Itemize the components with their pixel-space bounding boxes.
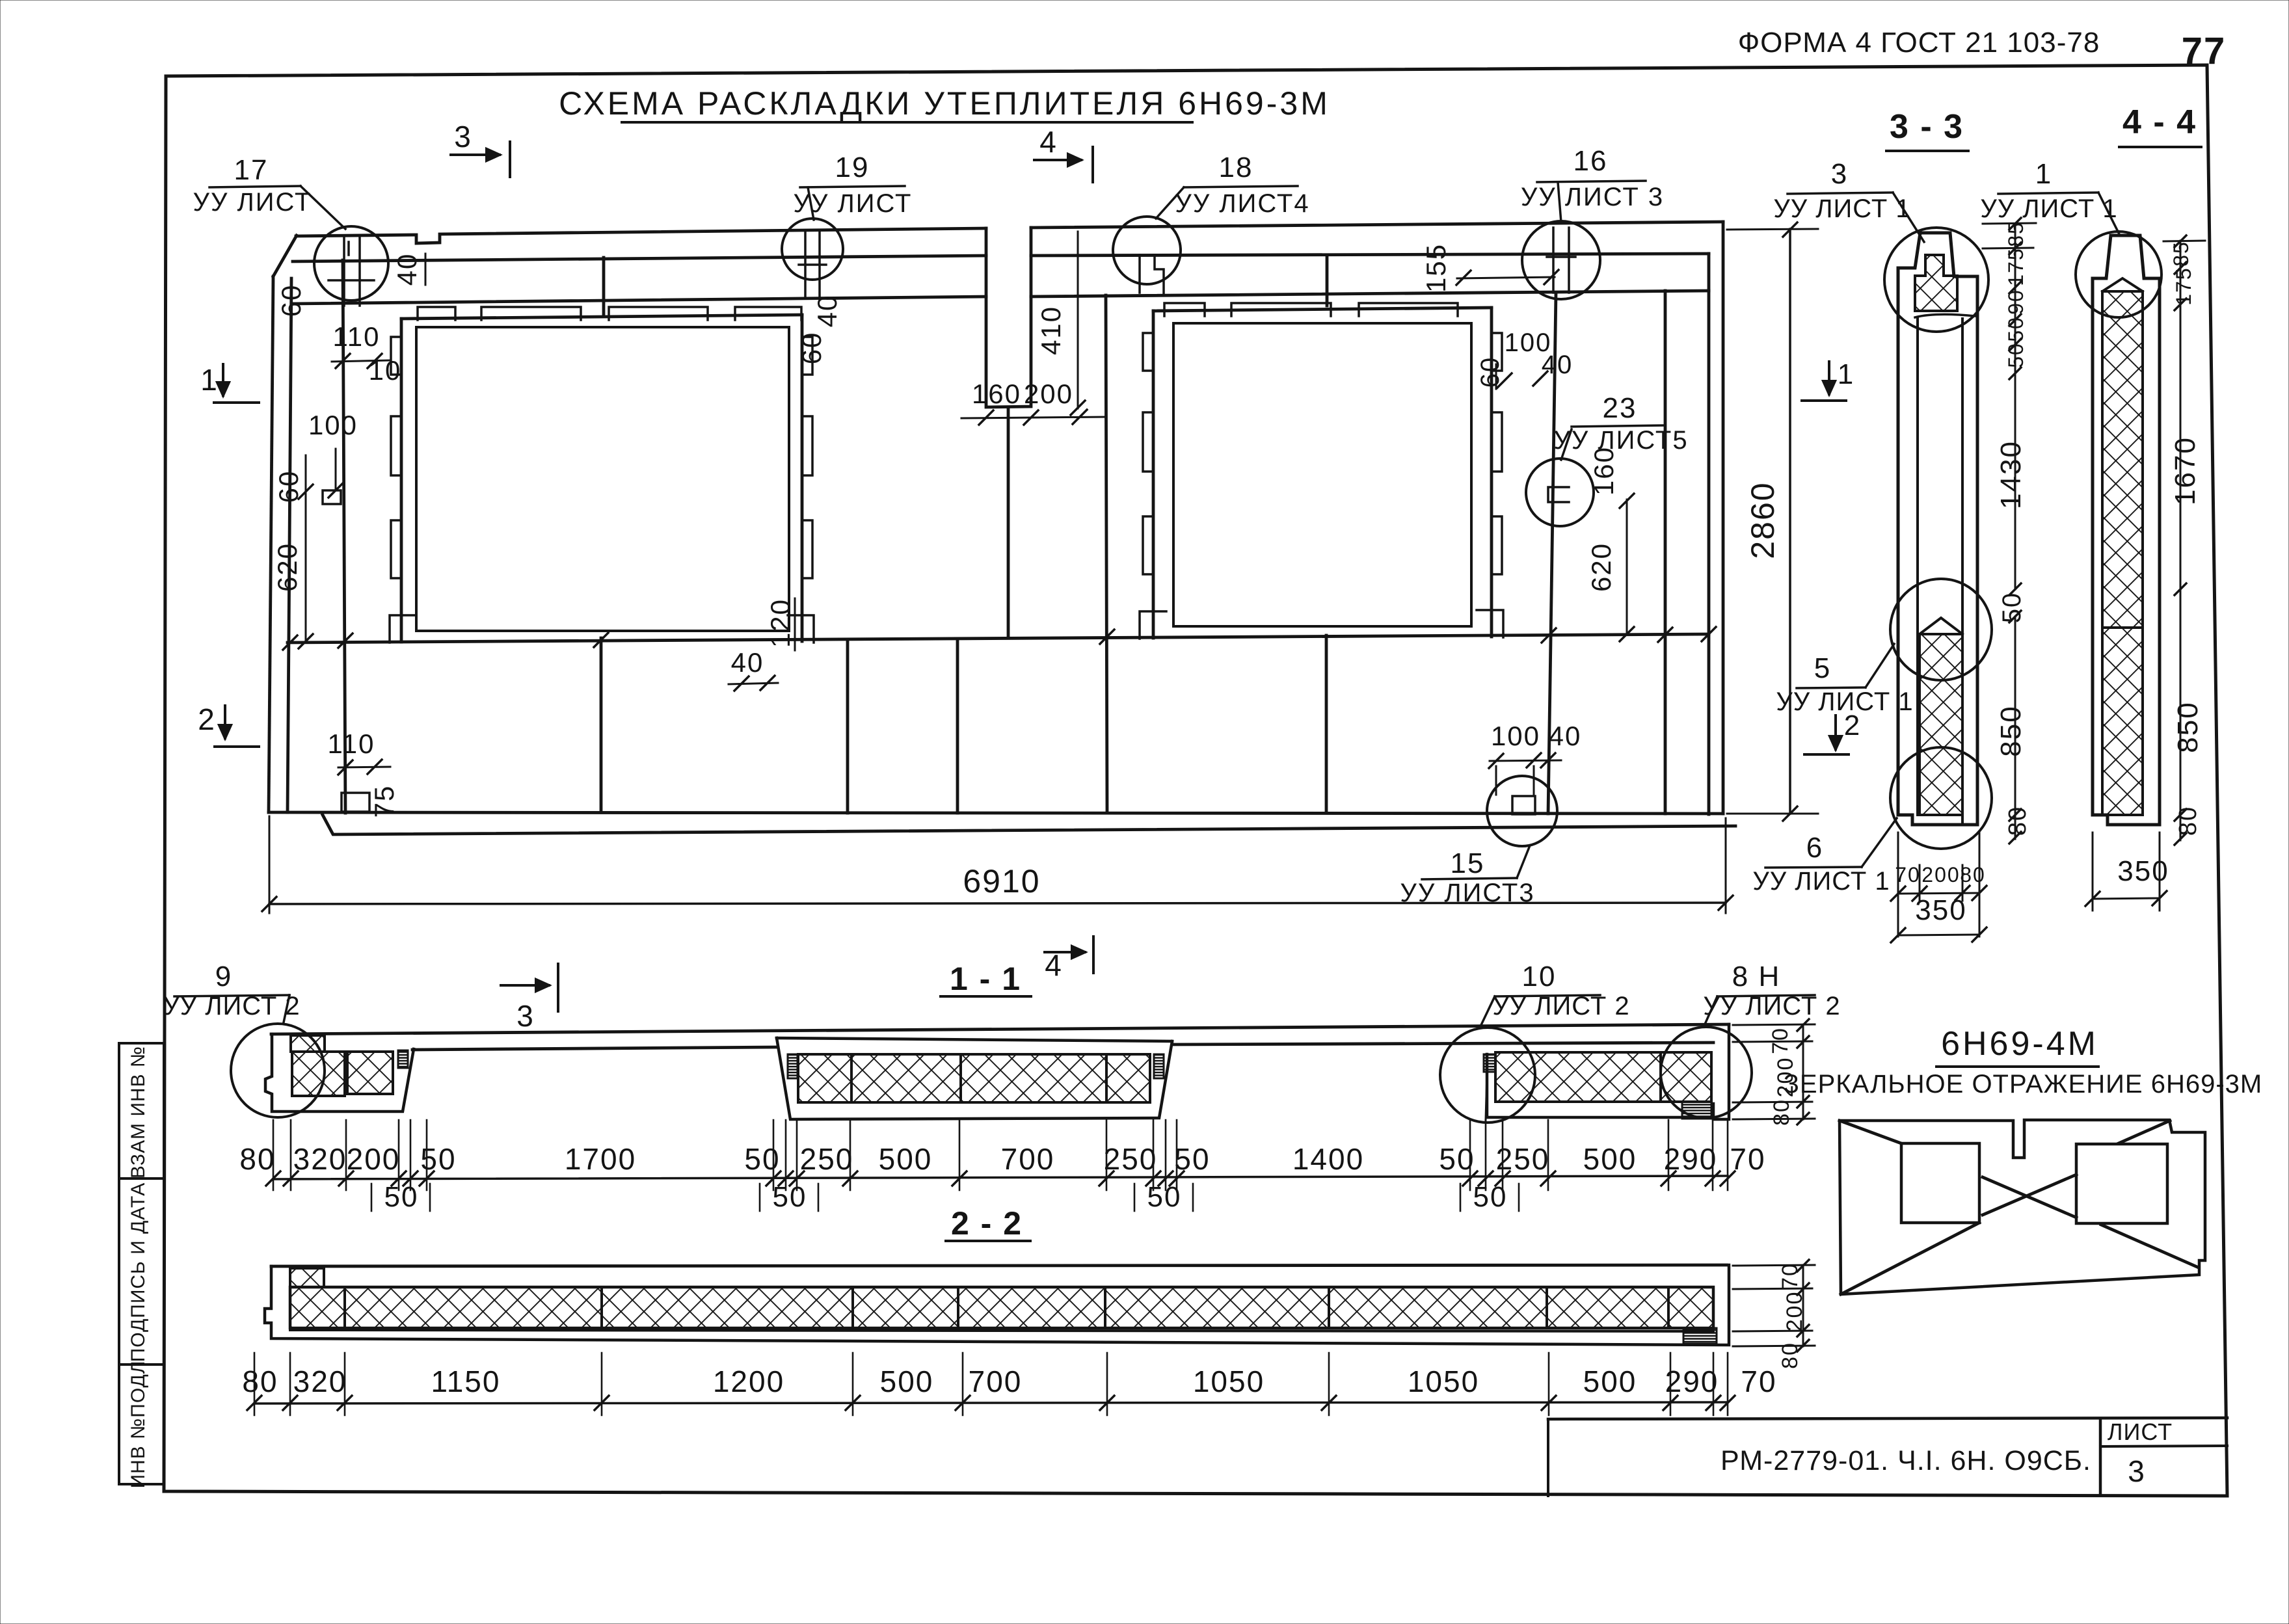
svg-text:УУ ЛИСТ 1: УУ ЛИСТ 1 bbox=[1752, 867, 1890, 896]
svg-text:850: 850 bbox=[2172, 701, 2204, 752]
section 4-4 insulation strip bbox=[2102, 291, 2143, 815]
elevation right outer edge bbox=[1722, 222, 1725, 814]
side tabs window 2 right bbox=[1492, 333, 1502, 371]
elevation top-left slant corner bbox=[273, 235, 297, 276]
svg-text:УУ ЛИСТ 3: УУ ЛИСТ 3 bbox=[1521, 183, 1664, 211]
svg-text:500: 500 bbox=[880, 1364, 934, 1398]
svg-text:100: 100 bbox=[308, 410, 358, 440]
svg-text:75: 75 bbox=[369, 785, 399, 818]
svg-text:УУ ЛИСТ 1: УУ ЛИСТ 1 bbox=[1980, 194, 2117, 223]
divider between windows x1700 bbox=[1106, 295, 1107, 813]
svg-text:2: 2 bbox=[1844, 710, 1861, 741]
side tabs window 1 left bbox=[391, 337, 401, 375]
svg-text:50: 50 bbox=[744, 1142, 780, 1176]
svg-text:1050: 1050 bbox=[1408, 1364, 1479, 1398]
svg-text:УУ ЛИСТ 2: УУ ЛИСТ 2 bbox=[1492, 992, 1629, 1020]
small insert rect bottom-left bbox=[341, 793, 369, 812]
svg-text:9: 9 bbox=[215, 961, 232, 992]
window 1 outer frame bbox=[401, 315, 802, 319]
svg-text:ПОДПИСЬ И ДАТА: ПОДПИСЬ И ДАТА bbox=[127, 1182, 149, 1363]
joint above window1 center bbox=[602, 258, 606, 316]
svg-text:2: 2 bbox=[198, 702, 216, 736]
svg-text:23: 23 bbox=[1603, 392, 1637, 424]
svg-text:ЛИСТ: ЛИСТ bbox=[2108, 1418, 2173, 1445]
svg-text:110: 110 bbox=[333, 321, 381, 352]
svg-text:700: 700 bbox=[969, 1364, 1023, 1398]
section 1-1 left insulation blocks bbox=[292, 1052, 345, 1096]
detail circle 6 (section 3-3 bottom) bbox=[1890, 747, 1992, 849]
line A upper band bbox=[293, 256, 986, 261]
svg-text:50: 50 bbox=[420, 1142, 456, 1176]
svg-text:850: 850 bbox=[1995, 705, 2027, 756]
svg-text:1200: 1200 bbox=[713, 1364, 784, 1398]
svg-text:70: 70 bbox=[1730, 1142, 1765, 1176]
joint divider left column bbox=[343, 260, 345, 813]
svg-text:1 - 1: 1 - 1 bbox=[950, 961, 1021, 997]
section 4-4 outline bbox=[2093, 235, 2160, 825]
svg-text:620: 620 bbox=[1586, 542, 1616, 592]
insulation joint 2-2 bbox=[1667, 1287, 1670, 1328]
svg-text:70: 70 bbox=[1741, 1364, 1776, 1398]
svg-text:250: 250 bbox=[800, 1142, 854, 1176]
svg-text:100: 100 bbox=[1491, 721, 1540, 751]
svg-text:160: 160 bbox=[972, 379, 1021, 409]
insulation joint 2-2 bbox=[1104, 1287, 1106, 1328]
elevation right inner edge bbox=[1707, 254, 1711, 814]
window 1 inner frame bbox=[416, 327, 789, 631]
insulation tabs above window 2 bbox=[1164, 303, 1205, 316]
svg-text:ИНВ №ПОДЛ: ИНВ №ПОДЛ bbox=[127, 1361, 149, 1489]
section 2-2 top face bbox=[271, 1265, 1726, 1266]
elevation left outer edge bbox=[269, 276, 273, 812]
svg-text:2 - 2: 2 - 2 bbox=[951, 1205, 1023, 1242]
svg-text:ВЗАМ ИНВ №: ВЗАМ ИНВ № bbox=[127, 1046, 149, 1178]
detail circle 8N bbox=[1661, 1027, 1752, 1118]
svg-text:1430: 1430 bbox=[1995, 440, 2027, 509]
svg-text:СХЕМА РАСКЛАДКИ УТЕПЛИТЕЛЯ: СХЕМА РАСКЛАДКИ УТЕПЛИТЕЛЯ 6Н69-3М bbox=[559, 85, 1330, 122]
break line under detail 3 bbox=[1915, 314, 1975, 317]
svg-text:200: 200 bbox=[347, 1142, 401, 1176]
svg-text:15: 15 bbox=[1451, 847, 1485, 879]
svg-text:290: 290 bbox=[1665, 1364, 1719, 1398]
margin box column bbox=[119, 1043, 164, 1484]
svg-text:6Н69-4М: 6Н69-4М bbox=[1941, 1025, 2098, 1063]
lower divider x1303 bbox=[846, 639, 850, 813]
section 3-3 inner layer lines bbox=[1916, 319, 1919, 815]
mirror diagonal br bbox=[2101, 1225, 2199, 1268]
title underline bbox=[622, 121, 1192, 124]
section 1-1 right outline bbox=[1487, 1024, 1729, 1119]
detail circle 17 bbox=[314, 226, 388, 300]
elevation bottom edge bbox=[269, 812, 1723, 814]
svg-text:18: 18 bbox=[1219, 152, 1253, 183]
insulation joint 2-2 bbox=[957, 1287, 959, 1328]
insulation joint 2-2 bbox=[1546, 1287, 1548, 1328]
divider below slot bbox=[1007, 407, 1010, 638]
section 2-2 corner insulation block bbox=[290, 1268, 324, 1287]
mirror diagonal tr bbox=[2119, 1121, 2170, 1143]
insulation joint 2-2 bbox=[343, 1287, 346, 1328]
svg-text:80: 80 bbox=[2175, 806, 2202, 836]
svg-text:200: 200 bbox=[1921, 863, 1960, 886]
elevation top edge bbox=[296, 228, 986, 243]
section 2-2 outline left/bottom/right bbox=[265, 1265, 1729, 1345]
mirror diagonal bl long bbox=[1841, 1223, 1979, 1294]
insulation joint 2-2 bbox=[600, 1287, 603, 1328]
mirror diagonal tl bbox=[1840, 1121, 1901, 1143]
svg-text:60: 60 bbox=[796, 332, 827, 365]
detail circle 23 bbox=[1526, 459, 1594, 526]
svg-text:80: 80 bbox=[242, 1364, 278, 1398]
svg-text:120: 120 bbox=[765, 598, 796, 648]
svg-text:500: 500 bbox=[879, 1142, 933, 1176]
svg-text:РМ-2779-01. Ч.I. 6Н. О9СБ.: РМ-2779-01. Ч.I. 6Н. О9СБ. bbox=[1720, 1445, 2091, 1476]
dim 2860 right of elevation bbox=[1727, 229, 1818, 230]
line B upper band bbox=[293, 297, 986, 304]
sheet border frame bbox=[164, 65, 2227, 1496]
elevation left inner edge bbox=[288, 278, 291, 812]
svg-text:3: 3 bbox=[454, 120, 472, 153]
elevation bottom drip line bbox=[323, 815, 1735, 834]
left edge tab 100 bbox=[323, 490, 341, 504]
svg-text:ЗЕРКАЛЬНОЕ ОТРАЖЕНИЕ 6Н69-3М: ЗЕРКАЛЬНОЕ ОТРАЖЕНИЕ 6Н69-3М bbox=[1784, 1070, 2262, 1098]
svg-text:3: 3 bbox=[2128, 1454, 2146, 1488]
window 2 bottom corner steps bbox=[1140, 611, 1166, 639]
section 1-1 right gasket small bbox=[1484, 1054, 1495, 1072]
svg-text:1: 1 bbox=[2035, 158, 2052, 190]
svg-text:3: 3 bbox=[516, 999, 535, 1033]
svg-text:УУ ЛИСТ 2: УУ ЛИСТ 2 bbox=[1703, 992, 1840, 1020]
gasket drop line bbox=[1486, 1072, 1487, 1120]
svg-text:УУ ЛИСТ 1: УУ ЛИСТ 1 bbox=[1773, 194, 1910, 223]
svg-text:17: 17 bbox=[234, 154, 269, 186]
svg-text:50: 50 bbox=[1473, 1181, 1508, 1213]
section 2-2 right gasket bbox=[1683, 1328, 1717, 1344]
insulation joint 4-4 bbox=[2102, 626, 2143, 629]
svg-text:410: 410 bbox=[1036, 306, 1066, 355]
svg-text:70: 70 bbox=[1778, 1262, 1802, 1290]
insulation tabs above window 1 bbox=[418, 307, 455, 320]
section 1-1 inner face line bbox=[412, 1047, 777, 1050]
side tabs window 2 left bbox=[1143, 333, 1153, 371]
section 3-3 lower insulation strip bbox=[1920, 634, 1962, 815]
window 2 outer frame bbox=[1153, 308, 1492, 311]
svg-text:5: 5 bbox=[1814, 652, 1831, 684]
svg-text:1700: 1700 bbox=[565, 1142, 636, 1176]
section 1-1 right bottom gasket bbox=[1682, 1102, 1711, 1119]
svg-text:77: 77 bbox=[2182, 30, 2227, 72]
svg-text:80: 80 bbox=[239, 1142, 275, 1176]
sill line bbox=[288, 634, 1709, 643]
svg-text:500: 500 bbox=[1583, 1142, 1637, 1176]
top slot between windows bbox=[986, 228, 1031, 407]
svg-text:320: 320 bbox=[293, 1142, 347, 1176]
svg-text:2860: 2860 bbox=[1745, 481, 1781, 559]
mirror window right bbox=[2076, 1144, 2167, 1223]
svg-text:500: 500 bbox=[1583, 1364, 1637, 1398]
window 1 bottom corner steps bbox=[390, 615, 416, 643]
detail circle 9 bbox=[231, 1024, 325, 1117]
section 2-2 inner bottom line bbox=[290, 1330, 1713, 1331]
section 3-3 outline bbox=[1898, 233, 1977, 825]
svg-text:200: 200 bbox=[1024, 379, 1073, 409]
svg-text:350: 350 bbox=[2117, 855, 2169, 887]
svg-text:50: 50 bbox=[1439, 1142, 1475, 1176]
section 1-1 left corner insulation bbox=[291, 1035, 325, 1052]
insulation joint 2-2 bbox=[1328, 1287, 1330, 1328]
svg-text:8 Н: 8 Н bbox=[1732, 961, 1780, 992]
detail circle 16 bbox=[1522, 221, 1600, 299]
svg-text:1400: 1400 bbox=[1292, 1142, 1364, 1176]
svg-text:19: 19 bbox=[835, 152, 870, 183]
title block frame bbox=[1548, 1418, 2227, 1419]
section 1-1 left end outline bbox=[265, 1034, 414, 1112]
detail circle 19 bbox=[782, 219, 843, 280]
lower divider below window2 center bbox=[1325, 635, 1328, 813]
dim line 160 200 bbox=[961, 417, 1106, 418]
section 1-1 middle trapezoid insulation bbox=[798, 1054, 1150, 1102]
section 2-2 insulation row bbox=[290, 1287, 1713, 1328]
svg-text:620: 620 bbox=[272, 542, 302, 592]
svg-text:10: 10 bbox=[1522, 961, 1557, 992]
mirror window left bbox=[1901, 1143, 1979, 1223]
detail circle 18 bbox=[1113, 217, 1181, 284]
divider through detail 23 bbox=[1548, 293, 1556, 814]
svg-text:110: 110 bbox=[328, 728, 375, 759]
mirror cross X bbox=[1983, 1177, 2076, 1218]
joint above window2 center bbox=[1326, 255, 1329, 306]
svg-text:40: 40 bbox=[392, 253, 422, 286]
svg-text:ФОРМА 4 ГОСТ 21 103-78: ФОРМА 4 ГОСТ 21 103-78 bbox=[1738, 27, 2100, 59]
window 2 inner frame bbox=[1173, 323, 1471, 626]
svg-text:3 - 3: 3 - 3 bbox=[1890, 108, 1964, 146]
svg-text:1: 1 bbox=[1838, 358, 1854, 390]
svg-text:16: 16 bbox=[1573, 145, 1608, 177]
sill tick marks bbox=[283, 627, 1716, 650]
svg-text:УУ ЛИСТ: УУ ЛИСТ bbox=[193, 188, 312, 217]
margin divider bbox=[119, 1177, 164, 1180]
detail circle 15 bbox=[1487, 776, 1557, 846]
svg-text:160: 160 bbox=[1588, 446, 1619, 496]
svg-text:155: 155 bbox=[1421, 243, 1451, 293]
svg-text:60: 60 bbox=[1476, 356, 1505, 388]
dim line 100 40 bbox=[1490, 760, 1561, 761]
joint divider below window1 center bbox=[600, 638, 603, 812]
svg-text:3: 3 bbox=[1831, 158, 1848, 190]
svg-text:УУ ЛИСТ4: УУ ЛИСТ4 bbox=[1175, 189, 1309, 218]
mirror panel outline bbox=[1840, 1120, 2205, 1294]
svg-text:6: 6 bbox=[1806, 832, 1823, 864]
svg-text:350: 350 bbox=[1915, 894, 1966, 926]
detail circle 3 (section 3-3 top) bbox=[1884, 228, 1988, 332]
svg-text:250: 250 bbox=[1104, 1142, 1158, 1176]
side tabs window 1 right bbox=[802, 337, 812, 375]
divider x2560 bbox=[1664, 291, 1667, 814]
insulation joint 2-2 bbox=[851, 1287, 854, 1328]
detail circle 5 (section 3-3 middle) bbox=[1890, 579, 1992, 680]
dim 6910 bottom bbox=[269, 816, 271, 913]
svg-text:1050: 1050 bbox=[1193, 1364, 1265, 1398]
svg-text:1: 1 bbox=[200, 363, 219, 397]
svg-text:80: 80 bbox=[1960, 863, 1986, 886]
detail circle 1 (section 4-4 top) bbox=[2076, 232, 2162, 317]
dimension chain below section 1-1 bbox=[273, 1176, 1728, 1179]
svg-text:10: 10 bbox=[369, 355, 402, 386]
section 1-1 left gasket bbox=[398, 1050, 408, 1068]
svg-text:250: 250 bbox=[1496, 1142, 1550, 1176]
svg-text:4 - 4: 4 - 4 bbox=[2122, 103, 2197, 141]
list box bbox=[2100, 1446, 2227, 1446]
section 1-1 top face bbox=[271, 1024, 1729, 1034]
detail circle 10 bbox=[1440, 1028, 1535, 1123]
svg-text:40: 40 bbox=[1542, 351, 1573, 379]
svg-text:40: 40 bbox=[1549, 721, 1582, 751]
svg-text:1150: 1150 bbox=[431, 1364, 501, 1398]
svg-text:50: 50 bbox=[384, 1181, 419, 1213]
svg-text:80: 80 bbox=[2004, 806, 2031, 836]
svg-text:60: 60 bbox=[276, 284, 306, 317]
svg-text:6910: 6910 bbox=[963, 863, 1040, 899]
svg-text:1670: 1670 bbox=[2169, 436, 2201, 505]
svg-text:290: 290 bbox=[1664, 1142, 1718, 1176]
svg-text:700: 700 bbox=[1001, 1142, 1055, 1176]
dimension chain below section 2-2 bbox=[254, 1402, 1728, 1404]
lower divider x1472 bbox=[956, 639, 959, 813]
svg-text:УУ ЛИСТ 2: УУ ЛИСТ 2 bbox=[163, 992, 300, 1020]
svg-text:50: 50 bbox=[1174, 1142, 1210, 1176]
section 3-3 top insulation piece bbox=[1915, 255, 1957, 311]
svg-text:320: 320 bbox=[293, 1364, 347, 1398]
margin divider bbox=[119, 1363, 164, 1366]
section 1-1 right insulation bbox=[1495, 1052, 1711, 1102]
svg-text:50: 50 bbox=[773, 1181, 807, 1213]
svg-text:40: 40 bbox=[731, 647, 764, 678]
svg-text:40: 40 bbox=[812, 295, 842, 328]
svg-text:4: 4 bbox=[1039, 125, 1058, 159]
svg-text:50: 50 bbox=[1147, 1181, 1182, 1213]
svg-text:УУ ЛИСТ5: УУ ЛИСТ5 bbox=[1553, 426, 1688, 455]
